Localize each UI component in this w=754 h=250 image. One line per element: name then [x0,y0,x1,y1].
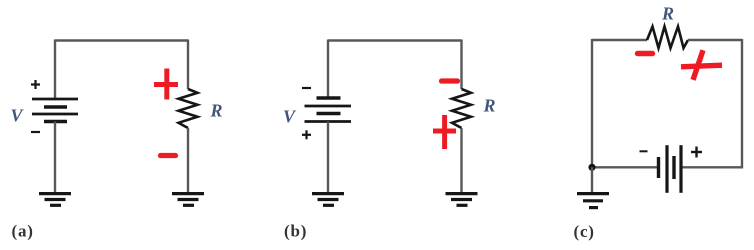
svg-text:R: R [482,96,495,116]
red polarity minus (a) [161,153,176,158]
wire node-to-ground (c) [591,167,593,193]
wire left-top (b) [327,40,329,99]
resistor R (a) [179,89,198,128]
wire bottom-right (c) [681,166,743,168]
red polarity minus (c) [638,51,653,56]
battery minus mark (a) [31,131,40,133]
resistor R (c) [647,27,688,49]
svg-text:R: R [209,101,222,121]
ground (c) [577,194,609,208]
svg-text:V: V [283,107,297,127]
wire left (c) [591,39,593,167]
battery minus mark (c) [640,150,648,152]
battery minus mark (b) [302,87,311,89]
ground (a) left [39,194,71,206]
wire bottom-left (c) [592,166,659,168]
red polarity minus (b) [442,78,458,83]
wire left-top (a) [54,40,56,100]
label V (a) [10,106,24,126]
wire right-top (b) [460,40,462,90]
wire battery-to-ground (b) [327,122,329,194]
battery plus mark (b) [302,130,311,139]
red polarity plus (c) [681,50,722,80]
wire resistor-to-ground (b) [460,128,462,193]
ground (b) left [312,194,344,206]
wire right (c) [741,39,743,168]
caption (c) [574,222,595,241]
svg-text:(b): (b) [284,222,307,241]
wire battery-to-ground (a) [54,122,56,194]
label R (c) [661,4,674,24]
label R (a) [209,101,222,121]
resistor R (b) [452,89,471,128]
label V (b) [283,107,297,127]
battery V (a) [32,99,78,122]
svg-text:R: R [661,4,674,24]
svg-text:(a): (a) [12,222,34,241]
label R (b) [482,96,495,116]
ground (b) right [446,194,478,206]
ground (a) right [172,194,204,206]
battery plus mark (a) [31,80,40,89]
wire right-top (a) [187,40,189,90]
wire top (a) [55,39,188,41]
wire top (b) [328,39,462,41]
wire resistor-to-ground (a) [187,128,189,193]
red polarity plus (b) [433,115,456,149]
battery V (b) [305,98,352,122]
svg-text:V: V [10,106,24,126]
battery (c) [659,145,682,193]
svg-text:(c): (c) [574,222,595,241]
wire top-right (c) [688,39,742,41]
wire top-left (c) [592,39,647,41]
battery plus mark (c) [691,147,702,158]
caption (a) [12,222,34,241]
junction node (c) [588,164,595,171]
red polarity plus (a) [154,69,178,100]
caption (b) [284,222,307,241]
